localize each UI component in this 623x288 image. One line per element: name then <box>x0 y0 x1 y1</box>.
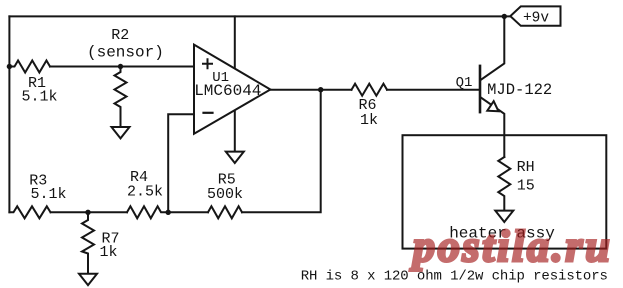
transistor Q1 collector <box>481 16 505 79</box>
svg-text:LMC6044: LMC6044 <box>194 82 261 100</box>
svg-text:postila.ru: postila.ru <box>409 222 612 271</box>
resistor R5 <box>208 206 242 218</box>
svg-text:5.1k: 5.1k <box>21 89 57 106</box>
resistor R7 <box>82 212 94 273</box>
resistor R2 <box>115 67 127 128</box>
wire R6 to Q1 base <box>387 89 479 91</box>
node F junction dot +9v <box>502 14 507 19</box>
svg-text:(sensor): (sensor) <box>87 44 164 62</box>
opamp minus mark <box>204 112 213 114</box>
wire top rail <box>9 15 509 17</box>
resistor RH <box>498 157 510 211</box>
node C junction dot output <box>318 87 323 92</box>
op-amp U1 triangle <box>194 45 270 134</box>
wire R3 to R4 <box>51 211 128 213</box>
node D junction dot R7 top <box>85 210 90 215</box>
svg-text:Q1: Q1 <box>456 75 473 91</box>
wire opamp V+ supply <box>234 16 236 68</box>
node B junction dot R2 top <box>118 64 123 69</box>
svg-text:1k: 1k <box>99 244 117 261</box>
ground below op-amp <box>226 152 244 163</box>
ground below R7 <box>79 274 97 285</box>
wire noninverting input <box>121 66 195 68</box>
wire left rail <box>8 16 10 212</box>
wire opamp output <box>270 89 320 91</box>
svg-text:RH: RH <box>517 159 535 176</box>
power flag +9v <box>510 6 560 25</box>
wire node3 to R5 <box>168 211 208 213</box>
wire output to R6 <box>321 89 352 91</box>
wire inverting input feedback <box>168 114 194 212</box>
transistor Q1 base bar <box>479 66 482 112</box>
arrow below RH <box>495 211 513 222</box>
wire feedback from output down to R5 <box>242 90 321 213</box>
svg-text:2.5k: 2.5k <box>127 184 163 201</box>
node A junction dot left rail <box>7 64 12 69</box>
node E junction dot feedback <box>166 210 171 215</box>
svg-text:1k: 1k <box>360 112 378 129</box>
transistor Q1 emitter arrow <box>487 101 498 111</box>
svg-text:500k: 500k <box>207 186 243 203</box>
ground below R2 <box>112 127 130 138</box>
resistor R3 <box>9 206 50 218</box>
svg-text:R2: R2 <box>111 27 129 44</box>
wire R1 to R2 node <box>50 66 121 68</box>
svg-text:15: 15 <box>517 177 535 194</box>
svg-text:+9v: +9v <box>523 10 549 26</box>
wire opamp ground stem <box>234 110 236 152</box>
svg-text:MJD-122: MJD-122 <box>487 81 552 99</box>
resistor R6 <box>352 84 388 96</box>
transistor Q1 emitter <box>481 98 505 158</box>
svg-text:5.1k: 5.1k <box>30 186 66 203</box>
resistor R1 <box>9 61 50 73</box>
heater assy box <box>403 135 607 248</box>
resistor R4 <box>127 206 168 218</box>
opamp plus mark <box>203 59 212 68</box>
